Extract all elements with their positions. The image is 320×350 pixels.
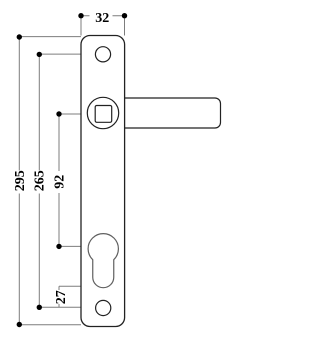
dimension 92 bottom leader bbox=[59, 245, 82, 247]
dimension 32 end dots bbox=[78, 13, 83, 18]
dimension 295 top leader bbox=[19, 36, 81, 38]
dimension 92 end dots bbox=[56, 111, 61, 116]
euro cylinder hole bbox=[88, 234, 118, 288]
handle lever bbox=[125, 98, 221, 128]
svg-text:295: 295 bbox=[13, 170, 28, 191]
dimension 295 vertical line bbox=[18, 37, 20, 325]
dimension 32 horizontal line bbox=[81, 15, 125, 17]
top screw hole bbox=[95, 47, 110, 62]
dimension 27 top tick bbox=[59, 285, 81, 287]
dimension 32 right extension bbox=[124, 16, 126, 36]
svg-text:92: 92 bbox=[53, 175, 68, 189]
svg-text:27: 27 bbox=[54, 290, 69, 304]
dimension 265 end dots bbox=[37, 52, 42, 57]
dimension 32 left extension bbox=[80, 16, 82, 36]
dimension 295 end dots bbox=[17, 34, 22, 39]
dimension 265 top leader bbox=[39, 53, 81, 55]
dimension 92 top leader bbox=[59, 113, 82, 115]
dimension 265 bottom leader bbox=[39, 306, 81, 308]
svg-text:265: 265 bbox=[33, 170, 48, 191]
backplate bbox=[81, 36, 125, 327]
bottom screw hole bbox=[96, 300, 111, 315]
spindle square hole bbox=[95, 106, 112, 123]
dimension 27 vertical line bbox=[58, 286, 60, 307]
dimension 265 vertical line bbox=[38, 55, 40, 308]
svg-text:32: 32 bbox=[95, 11, 109, 26]
dimension 92 vertical line bbox=[58, 114, 60, 246]
dimension 295 bottom leader bbox=[19, 324, 81, 326]
spindle boss circle bbox=[87, 97, 118, 128]
